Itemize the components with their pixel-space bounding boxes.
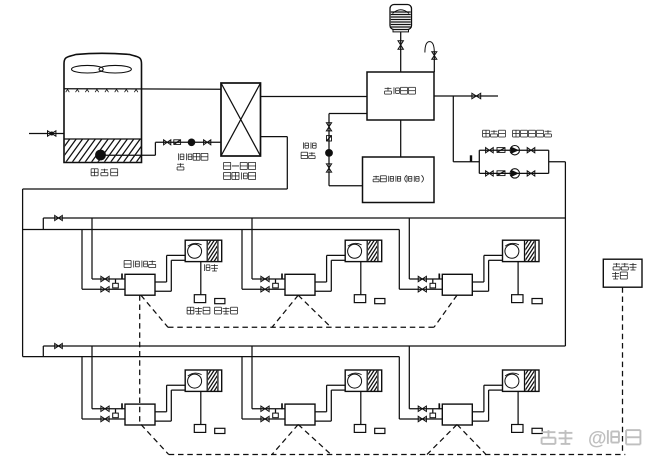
svg-text:@: @ [588,429,607,450]
